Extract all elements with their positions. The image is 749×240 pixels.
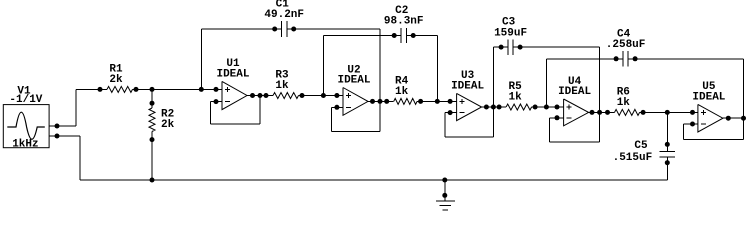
svg-text:159uF: 159uF	[494, 27, 527, 39]
svg-text:IDEAL: IDEAL	[216, 68, 249, 80]
svg-text:.258uF: .258uF	[606, 39, 646, 51]
svg-text:1kHz: 1kHz	[12, 138, 38, 150]
svg-text:-1/1V: -1/1V	[9, 94, 42, 106]
svg-text:1k: 1k	[275, 80, 289, 92]
svg-text:2k: 2k	[161, 119, 175, 131]
svg-text:IDEAL: IDEAL	[558, 86, 591, 98]
svg-text:C5: C5	[634, 140, 648, 152]
svg-text:IDEAL: IDEAL	[692, 91, 725, 103]
svg-text:2k: 2k	[109, 74, 123, 86]
svg-text:IDEAL: IDEAL	[451, 80, 484, 92]
svg-text:1k: 1k	[508, 92, 522, 104]
svg-text:.515uF: .515uF	[613, 152, 653, 164]
svg-text:49.2nF: 49.2nF	[264, 9, 304, 21]
svg-text:98.3nF: 98.3nF	[384, 16, 424, 28]
svg-text:1k: 1k	[617, 97, 631, 109]
svg-text:IDEAL: IDEAL	[337, 75, 370, 87]
svg-text:1k: 1k	[395, 86, 409, 98]
